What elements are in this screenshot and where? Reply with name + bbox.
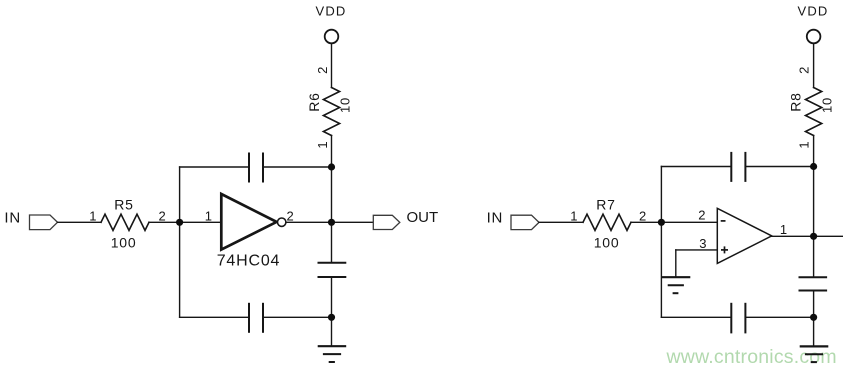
svg-text:2: 2 [287,209,294,224]
svg-text:100: 100 [111,235,137,251]
svg-text:1: 1 [205,208,212,223]
svg-text:1: 1 [315,141,330,148]
svg-text:2: 2 [796,67,811,74]
svg-text:74HC04: 74HC04 [217,253,281,270]
svg-text:1: 1 [796,141,811,148]
svg-text:2: 2 [315,67,330,74]
svg-text:R6: R6 [306,92,322,112]
svg-text:IN: IN [487,209,504,226]
svg-text:R8: R8 [787,92,803,112]
svg-text:10: 10 [820,97,835,113]
svg-text:1: 1 [570,208,577,223]
svg-text:R5: R5 [114,197,134,213]
svg-text:www.cntronics.com: www.cntronics.com [666,346,837,368]
svg-text:IN: IN [4,209,21,226]
svg-text:R7: R7 [596,197,616,213]
svg-text:100: 100 [594,235,620,251]
svg-text:3: 3 [699,236,706,251]
svg-text:2: 2 [639,208,646,223]
svg-text:VDD: VDD [315,4,346,19]
svg-text:1: 1 [780,222,787,237]
svg-text:10: 10 [338,97,353,113]
svg-text:2: 2 [159,208,166,223]
svg-text:OUT: OUT [407,209,439,226]
svg-text:2: 2 [698,208,705,223]
svg-text:VDD: VDD [797,4,828,19]
svg-text:1: 1 [89,208,96,223]
